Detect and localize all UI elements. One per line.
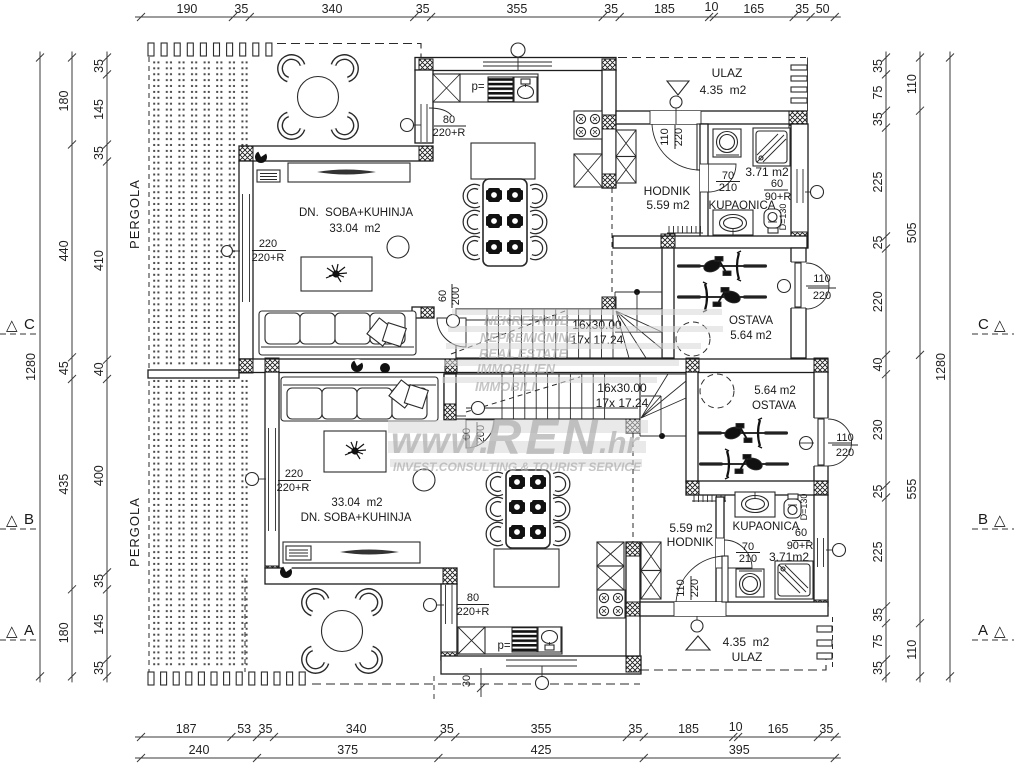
pergola posts top row xyxy=(148,43,272,56)
kitchen counter upper xyxy=(433,74,538,102)
svg-text:35: 35 xyxy=(92,59,106,73)
tall cabinet upper kitchen xyxy=(574,154,602,187)
upper bathroom door label 70/210 xyxy=(716,170,740,194)
coffee table lower with plant xyxy=(324,431,386,472)
svg-text:220: 220 xyxy=(259,238,277,250)
sink lower xyxy=(735,492,775,517)
dimension line right inner A xyxy=(871,52,890,683)
svg-text:5.59 m2: 5.59 m2 xyxy=(646,198,690,212)
WC lower xyxy=(784,494,801,518)
svg-text:145: 145 xyxy=(92,99,106,120)
svg-text:185: 185 xyxy=(654,2,675,16)
upper hodnik south wall xyxy=(613,234,807,248)
svg-text:375: 375 xyxy=(337,743,358,757)
pergola inner dashed boundary lower xyxy=(244,578,246,672)
lower ostava labels xyxy=(752,385,796,412)
svg-text:REAL ESTATE: REAL ESTATE xyxy=(479,346,567,361)
svg-text:35: 35 xyxy=(440,722,454,736)
svg-text:NEKRETNINE: NEKRETNINE xyxy=(484,313,569,328)
upper ostava boiler (dashed circle) xyxy=(676,322,710,356)
svg-text:340: 340 xyxy=(322,2,343,16)
svg-text:60: 60 xyxy=(771,178,783,190)
svg-text:220+R: 220+R xyxy=(457,606,490,618)
upper stair door 60/200 from living room xyxy=(412,307,466,347)
dining table upper xyxy=(465,179,544,266)
washing machine lower xyxy=(736,569,764,597)
svg-text:30: 30 xyxy=(461,675,473,687)
ULAZ entry steps upper xyxy=(791,65,807,103)
svg-text:.hr: .hr xyxy=(599,425,641,460)
svg-text:DN. SOBA+KUHINJA: DN. SOBA+KUHINJA xyxy=(299,207,413,219)
ULAZ dashed porch boundary upper xyxy=(618,57,806,59)
svg-text:220: 220 xyxy=(285,468,303,480)
svg-text:IMMOBILI: IMMOBILI xyxy=(475,379,535,394)
svg-text:225: 225 xyxy=(871,172,885,193)
window label 220/220+R lower living xyxy=(246,468,312,494)
svg-text:35: 35 xyxy=(92,146,106,160)
svg-text:B: B xyxy=(24,511,34,528)
lower entrance door 110/220 xyxy=(674,556,728,616)
svg-text:B: B xyxy=(978,511,988,528)
sofa lower xyxy=(281,377,438,421)
svg-text:35: 35 xyxy=(871,661,885,675)
upper kitchen top exterior wall xyxy=(415,58,616,76)
svg-text:355: 355 xyxy=(506,2,527,16)
ULAZ entry symbol lower xyxy=(686,616,710,650)
svg-text:35: 35 xyxy=(259,722,273,736)
upper ostava labels xyxy=(729,315,773,342)
svg-text:40: 40 xyxy=(92,362,106,376)
lower entrance door label 110/220 xyxy=(675,576,701,600)
svg-text:△: △ xyxy=(6,317,18,334)
dimension line top xyxy=(135,0,841,21)
svg-text:4.35 m2: 4.35 m2 xyxy=(723,635,770,649)
svg-text:35: 35 xyxy=(92,661,106,675)
lower kitchen south exterior wall xyxy=(441,656,641,674)
svg-text:16x30.00: 16x30.00 xyxy=(597,381,647,395)
entrance court dashed boundary lower right xyxy=(640,656,826,670)
svg-text:90+R: 90+R xyxy=(765,191,792,203)
svg-text:5.59 m2: 5.59 m2 xyxy=(669,521,713,535)
bathroom labels upper xyxy=(709,165,792,212)
kitchen counter lower xyxy=(457,627,562,654)
svg-text:35: 35 xyxy=(871,59,885,73)
radiator ticks lower hodnik xyxy=(692,495,726,502)
lower ostava west wall xyxy=(686,372,698,482)
svg-text:145: 145 xyxy=(92,614,106,635)
dimension line left inner A xyxy=(57,52,76,683)
column dots on middle band xyxy=(351,359,390,373)
svg-text:OSTAVA: OSTAVA xyxy=(752,400,796,412)
svg-text:60: 60 xyxy=(437,290,449,302)
lower stair hall pier xyxy=(626,419,640,433)
pergola bottom dashed boundary xyxy=(312,683,640,685)
living room label upper xyxy=(299,207,413,235)
dimension line left total 1280 xyxy=(24,52,44,683)
lower living south wall xyxy=(265,568,457,584)
upper entrance door 110/220 xyxy=(650,111,703,170)
svg-text:△: △ xyxy=(6,512,18,529)
upper stair label xyxy=(571,318,624,347)
svg-text:110: 110 xyxy=(905,74,919,94)
tall cabinets lower kitchen xyxy=(597,542,624,590)
kitchen island upper xyxy=(471,143,535,179)
ULAZ label lower xyxy=(723,635,770,664)
svg-text:220+R: 220+R xyxy=(277,482,310,494)
svg-text:OSTAVA: OSTAVA xyxy=(729,315,773,327)
svg-text:10: 10 xyxy=(705,0,719,14)
living room label lower xyxy=(301,497,412,524)
hallway wardrobe lower xyxy=(641,542,661,599)
svg-text:230: 230 xyxy=(871,419,885,440)
dimension line bottom row 2 xyxy=(135,743,841,762)
ULAZ entry steps lower xyxy=(817,626,832,659)
svg-text:165: 165 xyxy=(743,2,764,16)
TV cabinet lower xyxy=(283,542,420,563)
svg-text:A: A xyxy=(978,622,988,639)
svg-text:△: △ xyxy=(6,623,18,640)
dim 30 at lower kitchen xyxy=(434,668,485,700)
upper stair hall top wall line xyxy=(616,247,662,249)
middle shared wall band xyxy=(239,358,828,373)
dimension line bottom row 1 xyxy=(135,720,841,741)
pergola posts bottom row xyxy=(148,672,305,685)
svg-text:INVEST.CONSULTING & TOURIST SE: INVEST.CONSULTING & TOURIST SERVICE xyxy=(393,460,642,474)
upper living room north wall xyxy=(239,146,433,161)
svg-text:190: 190 xyxy=(177,2,198,16)
pergola dotted paving lower terrace xyxy=(150,378,252,668)
svg-text:KUPAONICA: KUPAONICA xyxy=(733,521,800,533)
svg-text:p=: p= xyxy=(471,81,484,93)
svg-text:33.04 m2: 33.04 m2 xyxy=(331,497,382,509)
svg-text:240: 240 xyxy=(189,743,210,757)
shower lower xyxy=(775,561,813,599)
lower living west exterior wall with window 220 xyxy=(265,358,279,582)
lower stair door 60/200 to living room xyxy=(444,374,494,448)
svg-text:220: 220 xyxy=(813,290,831,302)
lower stair door label 60/200 xyxy=(461,422,487,446)
upper kitchen top window label circle xyxy=(511,43,525,70)
svg-text:33.04 m2: 33.04 m2 xyxy=(329,223,380,235)
svg-text:5.64 m2: 5.64 m2 xyxy=(754,385,796,397)
window label 80/220+R lower kitchen xyxy=(424,592,490,618)
svg-text:220: 220 xyxy=(871,291,885,312)
svg-text:505: 505 xyxy=(905,222,919,243)
upper bathroom window circle xyxy=(805,186,824,199)
svg-text:REN: REN xyxy=(486,411,601,465)
pergola table lower with 4 chairs xyxy=(304,591,380,671)
svg-text:395: 395 xyxy=(729,743,750,757)
svg-text:110: 110 xyxy=(659,128,671,146)
svg-text:3.71 m2: 3.71 m2 xyxy=(745,165,789,179)
svg-text:187: 187 xyxy=(176,722,197,736)
svg-text:75: 75 xyxy=(871,86,885,100)
svg-text:555: 555 xyxy=(905,479,919,500)
lower ostava east wall with door 110/220 xyxy=(813,372,852,482)
svg-text:△: △ xyxy=(994,512,1006,529)
svg-text:17x 17.24: 17x 17.24 xyxy=(596,396,649,410)
radiator ticks upper hodnik xyxy=(667,226,703,233)
svg-text:4.35 m2: 4.35 m2 xyxy=(700,83,747,97)
svg-text:10: 10 xyxy=(729,720,743,734)
hallway wardrobe upper xyxy=(616,130,636,183)
svg-text:70: 70 xyxy=(742,541,754,553)
svg-text:HODNIK: HODNIK xyxy=(667,535,714,549)
coffee table upper with plant xyxy=(301,257,372,291)
svg-text:25: 25 xyxy=(871,484,885,498)
svg-text:220+R: 220+R xyxy=(433,127,466,139)
svg-text:C: C xyxy=(24,316,35,333)
svg-text:PERGOLA: PERGOLA xyxy=(127,179,142,249)
section marker A left xyxy=(0,622,38,640)
kitchen island lower xyxy=(494,549,559,587)
radiator lower living xyxy=(286,546,311,560)
svg-text:C: C xyxy=(978,316,989,333)
lower hall dashed boundary xyxy=(632,433,634,542)
svg-text:35: 35 xyxy=(819,722,833,736)
pergola left dashed boundary xyxy=(148,57,150,672)
radiator upper living xyxy=(257,170,280,182)
svg-text:△: △ xyxy=(994,317,1006,334)
WC upper xyxy=(764,209,781,233)
svg-text:1280: 1280 xyxy=(24,353,38,381)
upper kitchen west wall piece with window 80 xyxy=(415,70,433,143)
watermark text lines xyxy=(391,313,642,474)
svg-text:ULAZ: ULAZ xyxy=(732,650,763,664)
svg-text:180: 180 xyxy=(57,622,71,643)
svg-text:35: 35 xyxy=(416,2,430,16)
lower ostava door circle xyxy=(800,437,813,450)
svg-text:220+R: 220+R xyxy=(252,252,285,264)
upper entrance wall below ULAZ xyxy=(616,111,807,129)
svg-text:5.64 m2: 5.64 m2 xyxy=(730,330,772,342)
lower stair label xyxy=(596,381,649,410)
svg-text:225: 225 xyxy=(871,541,885,562)
bicycles lower ostava xyxy=(698,418,789,479)
upper ostava east wall with door 110/220 xyxy=(790,248,829,358)
upper hall dashed boundary xyxy=(611,188,613,292)
stove lower xyxy=(597,590,625,618)
upper living west exterior wall with window 220 xyxy=(239,161,253,373)
svg-text:△: △ xyxy=(994,623,1006,640)
svg-text:53: 53 xyxy=(237,722,251,736)
svg-text:110: 110 xyxy=(813,273,831,285)
bathroom labels lower xyxy=(733,521,814,564)
section marker A right xyxy=(972,622,1014,640)
svg-text:410: 410 xyxy=(92,250,106,271)
pergola top dashed boundary xyxy=(277,44,421,105)
section marker B right xyxy=(972,511,1014,529)
upper staircase xyxy=(451,289,662,358)
svg-text:110: 110 xyxy=(905,640,919,660)
svg-text:35: 35 xyxy=(92,574,106,588)
lower ostava boiler (dashed circle) xyxy=(700,374,734,408)
svg-text:210: 210 xyxy=(739,553,757,565)
svg-text:35: 35 xyxy=(234,2,248,16)
svg-text:D=130: D=130 xyxy=(799,494,809,521)
lower kitchen west wall with window 80 xyxy=(441,584,457,668)
lower bathroom window circle xyxy=(826,544,846,557)
svg-text:HODNIK: HODNIK xyxy=(644,184,691,198)
svg-text:425: 425 xyxy=(531,743,552,757)
pergola table upper with 4 chairs xyxy=(280,57,356,137)
lower ostava door label xyxy=(832,432,858,459)
hodnik label upper xyxy=(644,184,691,212)
lower kitchen east wall xyxy=(626,542,640,656)
section marker B left xyxy=(0,511,38,529)
svg-text:ULAZ: ULAZ xyxy=(712,66,743,80)
svg-text:70: 70 xyxy=(722,170,734,182)
lower bathroom west wall with door 70/210 xyxy=(716,497,752,606)
upper stair door label 60/200 xyxy=(437,284,462,308)
upper entrance door label 110/220 xyxy=(659,125,685,149)
svg-text:35: 35 xyxy=(871,608,885,622)
svg-text:75: 75 xyxy=(871,634,885,648)
svg-text:210: 210 xyxy=(719,182,737,194)
svg-text:355: 355 xyxy=(531,722,552,736)
upper ostava door circle xyxy=(778,280,791,293)
shower upper xyxy=(753,128,790,166)
upper ostava door label xyxy=(808,273,836,302)
ULAZ entry symbol upper (triangle + circle) xyxy=(667,81,689,124)
svg-text:IMMOBILIEN: IMMOBILIEN xyxy=(477,361,556,376)
sofa upper xyxy=(259,311,416,355)
lower entrance wall xyxy=(640,602,828,616)
svg-text:60: 60 xyxy=(795,527,807,539)
svg-text:www.: www. xyxy=(391,420,490,461)
svg-text:340: 340 xyxy=(346,722,367,736)
svg-text:DN. SOBA+KUHINJA: DN. SOBA+KUHINJA xyxy=(301,512,412,524)
window label 80/220+R upper kitchen xyxy=(401,108,467,139)
svg-text:35: 35 xyxy=(628,722,642,736)
column dot on lower living south wall xyxy=(280,565,292,578)
dimension line right total 1280 xyxy=(934,52,954,683)
ceiling light lower living xyxy=(413,469,435,491)
washing machine upper xyxy=(713,129,741,157)
upper ostava west wall xyxy=(662,248,674,358)
lower kitchen window circle xyxy=(536,666,549,690)
sink upper xyxy=(713,210,753,235)
upper stair hall pier xyxy=(602,297,616,311)
svg-text:D=130: D=130 xyxy=(778,204,788,231)
svg-text:400: 400 xyxy=(92,465,106,486)
svg-text:80: 80 xyxy=(443,114,455,126)
svg-text:220: 220 xyxy=(836,447,854,459)
svg-text:p=: p= xyxy=(497,640,510,652)
svg-text:165: 165 xyxy=(768,722,789,736)
lower staircase xyxy=(444,374,686,439)
svg-text:435: 435 xyxy=(57,474,71,495)
upper bathroom west wall with door 70/210 xyxy=(700,124,736,238)
svg-text:35: 35 xyxy=(795,2,809,16)
pergola dotted paving upper terrace xyxy=(150,58,252,367)
svg-text:50: 50 xyxy=(816,2,830,16)
svg-text:110: 110 xyxy=(675,579,687,597)
hodnik label lower xyxy=(667,521,714,549)
dimension line right inner B xyxy=(905,52,924,683)
svg-text:A: A xyxy=(24,622,34,639)
svg-text:440: 440 xyxy=(57,240,71,261)
ceiling light upper living xyxy=(387,236,409,258)
bicycles upper ostava xyxy=(677,251,767,312)
svg-text:NEPREMIČNINE: NEPREMIČNINE xyxy=(480,330,577,345)
window label 220/220+R upper living xyxy=(222,238,287,264)
section marker C left xyxy=(0,316,38,334)
svg-text:40: 40 xyxy=(871,358,885,372)
ULAZ label upper xyxy=(700,66,747,97)
svg-text:PERGOLA: PERGOLA xyxy=(127,497,142,567)
svg-text:35: 35 xyxy=(604,2,618,16)
upper bathroom east exterior wall with window xyxy=(791,124,808,248)
svg-text:45: 45 xyxy=(57,361,71,375)
svg-text:80: 80 xyxy=(467,592,479,604)
svg-text:35: 35 xyxy=(871,112,885,126)
upper kitchen east wall xyxy=(602,70,616,188)
stove upper xyxy=(574,111,602,139)
lower ostava south wall xyxy=(686,481,828,495)
section marker C right xyxy=(972,316,1014,334)
TV cabinet upper xyxy=(288,163,410,182)
svg-text:110: 110 xyxy=(836,432,854,444)
lower bathroom door label 70/210 xyxy=(736,541,760,565)
watermark stripes xyxy=(388,309,723,467)
svg-text:185: 185 xyxy=(678,722,699,736)
dimension line left inner B xyxy=(92,52,111,683)
column dot on upper living north wall xyxy=(255,150,267,163)
svg-text:25: 25 xyxy=(871,235,885,249)
svg-text:180: 180 xyxy=(57,91,71,112)
svg-text:1280: 1280 xyxy=(934,353,948,381)
pergola middle divider wall xyxy=(148,370,239,378)
dining table lower xyxy=(488,470,567,548)
lower bathroom east exterior wall with window xyxy=(814,495,828,616)
